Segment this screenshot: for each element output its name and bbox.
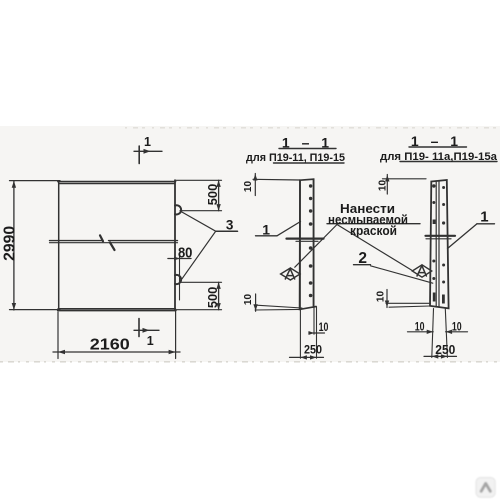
svg-text:80: 80 [178,245,193,261]
svg-text:1 – 1: 1 – 1 [411,133,462,149]
svg-text:2160: 2160 [90,336,130,353]
svg-text:500: 500 [205,184,220,206]
svg-text:2: 2 [358,250,367,267]
svg-text:10: 10 [415,321,425,333]
svg-text:10: 10 [243,181,254,193]
svg-text:250: 250 [435,342,455,357]
svg-text:1: 1 [144,135,151,149]
svg-text:для П19-11, П19-15: для П19-11, П19-15 [246,152,345,164]
svg-text:250: 250 [304,344,322,356]
svg-text:10: 10 [319,322,329,334]
svg-text:краской: краской [350,224,397,238]
svg-text:1: 1 [480,209,488,226]
svg-text:3: 3 [226,218,234,233]
svg-text:10: 10 [378,180,389,192]
svg-text:10: 10 [376,291,387,303]
svg-text:для П19- 11а,П19-15а: для П19- 11а,П19-15а [380,151,498,163]
svg-text:10: 10 [452,321,462,333]
svg-text:1: 1 [262,221,270,237]
svg-text:500: 500 [205,287,220,309]
svg-text:2990: 2990 [2,226,19,261]
svg-text:10: 10 [243,294,254,306]
svg-text:1 – 1: 1 – 1 [282,134,333,150]
svg-text:1: 1 [147,334,154,348]
